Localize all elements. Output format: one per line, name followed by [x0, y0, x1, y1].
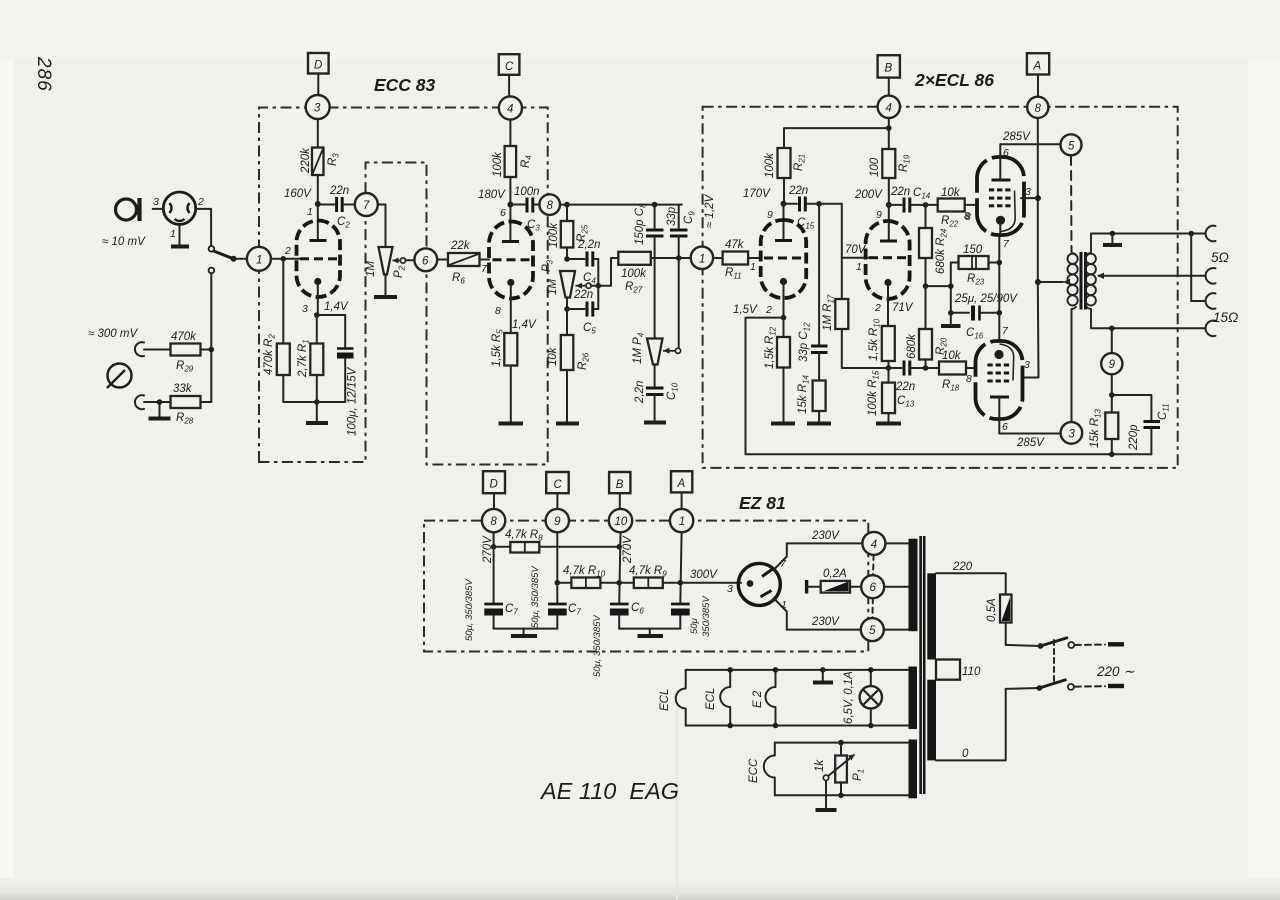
- svg-text:160V: 160V: [284, 188, 312, 200]
- 110V tap box: [936, 660, 960, 680]
- ground: [374, 295, 397, 299]
- 300V wire to EZ81: [680, 582, 741, 584]
- cathode V1b: [507, 279, 514, 286]
- wire R25 to node: [566, 248, 568, 260]
- resistor R27 100k: [618, 252, 651, 265]
- mains primary winding bar upper: [927, 573, 936, 659]
- letter box D2: [483, 471, 505, 493]
- output transformer secondary winding: [1086, 234, 1096, 329]
- wire R17 to rail: [842, 329, 889, 368]
- svg-text:22n: 22n: [788, 185, 808, 197]
- capacitor C6a 50u: [610, 604, 629, 629]
- wire terminal3 to R3: [317, 119, 319, 148]
- svg-text:B: B: [616, 479, 624, 491]
- wire terminal4b down to R19: [888, 128, 890, 149]
- 230V wire lower to terminal 5c: [787, 629, 861, 631]
- svg-text:1: 1: [750, 261, 756, 273]
- capacitor C5 22n: [564, 286, 598, 317]
- ground: [644, 421, 666, 425]
- svg-text:1: 1: [307, 206, 313, 218]
- svg-text:1: 1: [256, 254, 262, 266]
- heater ground: [820, 667, 826, 673]
- wire down to R25: [566, 205, 568, 221]
- capacitor C6b 50u: [671, 604, 690, 629]
- capacitor C9 33p: [670, 205, 688, 258]
- resistor R19 100: [882, 149, 895, 178]
- capacitor C2 22n: [318, 197, 355, 212]
- ECC heater rail upper: [775, 742, 908, 744]
- screen wire V4 to terminal 3: [999, 433, 1060, 435]
- wire R19 to anode node V2b: [888, 178, 890, 205]
- wire C15 node to grid rail V2b: [819, 204, 842, 299]
- resistor R24 680k: [925, 205, 927, 228]
- svg-text:1M: 1M: [547, 279, 559, 295]
- dashed link terminals 4-6-5: [872, 555, 875, 575]
- heater winding bar upper: [909, 667, 918, 730]
- wire C9 node down to P4 wiper: [678, 258, 680, 348]
- wire terminal7 to P2: [378, 205, 386, 248]
- resistor R10b 4,7k: [557, 578, 619, 589]
- ground: [876, 422, 901, 426]
- grids V4: [987, 365, 1009, 381]
- capacitor C7b 50u: [548, 604, 567, 629]
- capacitor C3 100n: [510, 198, 539, 213]
- svg-text:10k: 10k: [942, 350, 962, 362]
- svg-text:3: 3: [1024, 359, 1030, 371]
- anode wire V3 to node: [1021, 197, 1039, 199]
- grids V3: [989, 190, 1011, 206]
- capacitor C15 22n: [784, 197, 820, 212]
- svg-text:230V: 230V: [811, 616, 840, 628]
- letter box D: [308, 53, 329, 74]
- svg-text:10: 10: [615, 516, 628, 528]
- resistor R29 470k: [171, 344, 201, 356]
- resistor R20 680k: [925, 286, 927, 329]
- wire terminal 10 down: [619, 532, 620, 604]
- wire R26 to ground: [566, 370, 568, 422]
- anode lead V1a: [317, 204, 319, 241]
- switch mechanical link: [1053, 640, 1055, 684]
- svg-text:47k: 47k: [725, 239, 745, 251]
- svg-text:71V: 71V: [892, 302, 914, 314]
- svg-text:EZ 81: EZ 81: [739, 493, 786, 513]
- switch blade: [213, 251, 233, 259]
- anode lead V2a: [783, 204, 785, 241]
- wire R20 to rail: [925, 360, 927, 369]
- svg-text:3: 3: [314, 103, 321, 115]
- svg-text:200V: 200V: [854, 189, 883, 201]
- svg-text:6: 6: [1002, 421, 1008, 433]
- potentiometer P4 1M: [647, 339, 663, 365]
- wire terminal4 to R4: [509, 120, 511, 146]
- svg-text:4,7k R8: 4,7k R8: [505, 529, 543, 543]
- resistor R11 47k: [713, 252, 761, 265]
- cathode V3: [996, 216, 1005, 225]
- svg-text:2,7k R1: 2,7k R1: [297, 339, 311, 378]
- wire lower contact down to R29/R28 node: [210, 273, 212, 402]
- capacitor C10 2,2n: [646, 365, 664, 421]
- transformer core: [919, 536, 922, 794]
- wire 0 tap to lower switch: [1006, 687, 1039, 690]
- resistor R5 1,5k: [504, 333, 517, 366]
- cathode lead V2a: [783, 284, 785, 337]
- heater loop E2: [766, 670, 776, 726]
- primary outline 0 tap: [936, 689, 1006, 761]
- svg-text:50μ, 350/385V: 50μ, 350/385V: [464, 578, 475, 641]
- wire terminal 5 to primary top dashed: [1070, 156, 1073, 253]
- svg-text:8: 8: [490, 516, 497, 528]
- grid V1b: [493, 258, 530, 261]
- svg-text:4: 4: [507, 104, 513, 116]
- svg-text:8: 8: [1035, 103, 1042, 115]
- node grid V1a: [281, 256, 287, 262]
- svg-text:4: 4: [871, 539, 877, 551]
- wire wiper node to R27: [591, 258, 618, 286]
- svg-text:AE 110 EAG: AE 110 EAG: [539, 778, 679, 804]
- terminal 1 input: [247, 247, 271, 271]
- cathode lead V2b: [887, 285, 889, 326]
- svg-text:270V: 270V: [482, 535, 494, 564]
- HV secondary winding bar: [909, 539, 918, 632]
- terminal 8: [539, 194, 560, 215]
- svg-text:680k: 680k: [906, 333, 918, 359]
- resistor R14 15k: [813, 381, 826, 412]
- bottom wire stage1: [283, 375, 345, 402]
- svg-text:0: 0: [962, 748, 969, 760]
- svg-text:285V: 285V: [1002, 131, 1031, 143]
- svg-text:33p: 33p: [666, 206, 678, 226]
- svg-text:3: 3: [302, 303, 308, 315]
- resistor R2 470k: [277, 344, 290, 376]
- svg-text:3: 3: [1025, 186, 1031, 198]
- wire C5 node to R26: [566, 309, 568, 335]
- ground: [807, 422, 831, 426]
- wire terminal 3b to transformer primary bottom: [1071, 309, 1073, 422]
- terminal 10: [609, 509, 632, 532]
- letter box C2: [546, 472, 569, 493]
- anode lead V2b: [888, 205, 890, 241]
- anode line V3: [1001, 191, 1015, 232]
- svg-text:6: 6: [870, 582, 877, 594]
- svg-text:220 ∼: 220 ∼: [1096, 664, 1135, 679]
- transformer core: [1080, 252, 1083, 310]
- page fold crease: [676, 690, 678, 900]
- terminal 1 ECL86: [691, 247, 713, 269]
- svg-text:285V: 285V: [1016, 437, 1045, 449]
- link C box to terminal 4: [508, 75, 510, 97]
- pilot lamp 6,5V 0,1A: [860, 670, 882, 726]
- anode plate V1a: [310, 239, 327, 242]
- terminal 7: [355, 193, 378, 216]
- wire wiper to terminal 6: [406, 259, 415, 261]
- svg-text:5: 5: [869, 625, 876, 637]
- screen lead V3: [999, 144, 1001, 180]
- svg-text:15Ω: 15Ω: [1213, 310, 1238, 325]
- triode V1b ECC83: [489, 222, 533, 299]
- dash wire to mains stub lower: [1075, 685, 1105, 687]
- terminal 3b: [1061, 422, 1083, 444]
- svg-text:1: 1: [170, 228, 176, 240]
- ground stem C16: [950, 313, 952, 324]
- svg-text:470k R2: 470k R2: [263, 334, 277, 375]
- triode V1a ECC83: [297, 221, 341, 298]
- svg-text:100k: 100k: [548, 222, 560, 248]
- svg-text:A: A: [1033, 61, 1042, 73]
- cathode lead V3: [999, 224, 1001, 236]
- heater loop ECL 1: [676, 670, 686, 726]
- dashed enclosure ECC83: [259, 108, 548, 465]
- node anode V1b: [507, 202, 513, 208]
- terminal 4c: [862, 532, 885, 555]
- grid wire V1a to terminal 1: [271, 258, 300, 260]
- svg-text:1,4V: 1,4V: [324, 301, 349, 313]
- wire node to R23 left rail: [926, 285, 951, 287]
- link B2 box to terminal 10: [619, 493, 621, 509]
- capacitor C11 220p: [1144, 422, 1161, 455]
- svg-text:8: 8: [495, 305, 501, 317]
- svg-text:50μ: 50μ: [689, 617, 700, 634]
- svg-text:6: 6: [500, 207, 506, 219]
- svg-text:22n: 22n: [895, 381, 915, 393]
- link D box to terminal 3: [317, 74, 319, 96]
- pin 1 lead and ground: [179, 225, 181, 246]
- wire jack to R29: [144, 349, 171, 351]
- wire R10 to rail node: [888, 361, 890, 383]
- wire blade to terminal 1: [235, 258, 247, 260]
- input symbol a: [116, 198, 140, 221]
- speaker jack 2: [1206, 268, 1216, 284]
- grid V2b: [869, 256, 906, 259]
- wiper P2: [393, 260, 401, 262]
- rectifier tube EZ81: [738, 563, 780, 605]
- svg-text:22k: 22k: [450, 240, 471, 252]
- wire R27 to terminal 1: [651, 257, 691, 259]
- svg-text:22n: 22n: [329, 185, 349, 197]
- svg-text:2×ECL 86: 2×ECL 86: [914, 70, 994, 90]
- mains primary winding bar lower: [927, 680, 936, 761]
- wire grid node down to R2: [282, 259, 284, 344]
- heater bus lower rail: [686, 725, 908, 727]
- svg-text:100μ, 12/15V: 100μ, 12/15V: [347, 366, 359, 436]
- wire P2 bottom to ground: [385, 275, 387, 296]
- svg-text:220p: 220p: [1128, 424, 1140, 451]
- svg-text:C: C: [505, 61, 514, 73]
- svg-text:5Ω: 5Ω: [1211, 250, 1229, 265]
- svg-text:7: 7: [363, 200, 370, 212]
- heater loop ECC: [764, 743, 775, 796]
- anode line V4: [1000, 344, 1014, 381]
- hum pot P1 1k: [823, 740, 854, 798]
- heater loop ECL 2: [720, 670, 730, 726]
- svg-text:150p C8: 150p C8: [634, 203, 648, 245]
- wiper P3: [576, 285, 587, 287]
- svg-text:0,5A: 0,5A: [986, 598, 998, 622]
- svg-text:10k: 10k: [941, 187, 961, 199]
- heater winding bar lower: [909, 740, 918, 799]
- svg-text:8: 8: [966, 373, 972, 385]
- svg-text:8: 8: [547, 200, 554, 212]
- phono input symbol: [107, 364, 132, 389]
- svg-text:1M: 1M: [365, 261, 377, 277]
- wire cathode node to R1: [316, 315, 318, 344]
- svg-text:100n: 100n: [514, 186, 540, 198]
- anode lead V1b: [509, 205, 511, 242]
- cathode lead V1b: [510, 285, 512, 333]
- terminal 5: [1061, 134, 1082, 155]
- ground: [511, 634, 537, 638]
- dash wire to mains stub upper: [1075, 644, 1105, 647]
- resistor R8 4,7k: [494, 542, 620, 553]
- wire C7a to ground link: [494, 628, 558, 630]
- svg-text:4: 4: [886, 102, 892, 114]
- svg-text:22n: 22n: [890, 186, 910, 198]
- potentiometer P2 1M: [379, 247, 393, 275]
- wire R12 to ground: [783, 368, 785, 422]
- resistor R6 22k: [437, 253, 489, 266]
- ground stem stage1: [316, 402, 318, 421]
- ground: [171, 245, 189, 249]
- resistor R25 100k: [561, 221, 574, 248]
- resistor R15 100k: [882, 383, 895, 414]
- switch lower contact: [209, 268, 215, 274]
- terminal 6c: [861, 575, 884, 598]
- svg-text:2: 2: [284, 245, 291, 257]
- terminal 6: [414, 248, 437, 271]
- lower switch: [1037, 685, 1043, 691]
- ground stem: [649, 629, 651, 634]
- link C2 box to terminal 9c: [556, 493, 558, 509]
- svg-text:180V: 180V: [478, 189, 506, 201]
- wire C15 node down to C12: [818, 204, 820, 345]
- svg-text:B: B: [885, 63, 893, 75]
- svg-text:ECL: ECL: [659, 689, 671, 711]
- node anode V1a: [315, 201, 321, 207]
- primary outline 220 tap: [936, 573, 1006, 594]
- wire cathode node to C1: [317, 315, 345, 347]
- pin 1 wire EZ81: [774, 599, 787, 630]
- terminal 4b: [878, 96, 900, 118]
- potentiometer P3 1M: [560, 271, 575, 298]
- wires terminals to mains transformer: [885, 542, 908, 544]
- triode V2a ECL86: [761, 220, 807, 298]
- cathode rail pentodes: [998, 236, 1000, 341]
- link D2 box to terminal 8c: [493, 493, 495, 509]
- svg-text:2: 2: [765, 304, 772, 316]
- svg-text:33k: 33k: [173, 383, 193, 395]
- node C15 out: [816, 201, 822, 207]
- terminal 8b: [1027, 97, 1048, 118]
- svg-text:22n: 22n: [573, 289, 593, 301]
- letter box C: [499, 54, 520, 75]
- wire R15 to ground: [888, 413, 890, 422]
- resistor R3 220k: [312, 148, 324, 176]
- svg-text:220: 220: [952, 561, 973, 573]
- resistor R21 100k: [778, 148, 791, 178]
- capacitor C12 33p: [811, 346, 828, 381]
- screen wire V3 to terminal 5: [1000, 143, 1060, 145]
- svg-text:3: 3: [727, 583, 733, 595]
- svg-text:6: 6: [1003, 147, 1009, 159]
- resistor R10 1,5k: [882, 326, 895, 361]
- pentode V3 ECL86 upper: [977, 157, 1024, 235]
- cathode V2b: [884, 279, 891, 286]
- svg-text:≈ 300 mV: ≈ 300 mV: [88, 328, 138, 340]
- wire R4 to anode node V1b: [509, 177, 511, 205]
- svg-text:300V: 300V: [690, 569, 718, 581]
- wire top rail terminal4 to R21: [784, 118, 889, 148]
- svg-text:3: 3: [153, 196, 159, 208]
- microphone socket: [163, 192, 195, 224]
- svg-text:5: 5: [1068, 140, 1075, 152]
- cathode lead V1a: [317, 284, 318, 315]
- pentode V4 ECL86 lower: [976, 341, 1023, 419]
- upper switch: [1038, 643, 1044, 649]
- secondary tap arrow: [1099, 275, 1206, 277]
- svg-text:9: 9: [767, 209, 773, 221]
- ground: [556, 422, 579, 426]
- terminal 1c: [670, 509, 693, 532]
- resistor R22 10k: [926, 199, 978, 212]
- screen lead V4: [998, 397, 1000, 434]
- svg-text:25μ, 25/90V: 25μ, 25/90V: [954, 293, 1018, 305]
- svg-text:≈ 1,2V: ≈ 1,2V: [704, 194, 716, 228]
- screen bar V3: [992, 179, 1011, 182]
- svg-text:1k: 1k: [814, 759, 826, 772]
- ground: [638, 634, 664, 638]
- cathode V2a: [780, 278, 787, 285]
- wire R28 to node: [201, 401, 212, 403]
- capacitor C7a 50u: [484, 604, 503, 629]
- svg-text:286: 286: [33, 56, 54, 92]
- speaker jack 1: [1206, 226, 1216, 242]
- svg-text:ECL: ECL: [705, 688, 717, 710]
- triode V2b ECL86: [866, 221, 910, 299]
- svg-text:E 2: E 2: [752, 690, 764, 708]
- grid V1a: [300, 257, 337, 260]
- resistor R1 2,7k: [310, 344, 323, 376]
- svg-text:50μ, 350/385V: 50μ, 350/385V: [530, 565, 541, 628]
- anode plate V2a: [775, 239, 792, 242]
- ground: [941, 324, 961, 328]
- resistor R17 1M: [835, 299, 848, 329]
- svg-text:ECC: ECC: [748, 758, 760, 783]
- letter box A2: [671, 471, 692, 492]
- svg-text:6: 6: [422, 255, 429, 267]
- pin 3 stub: [153, 208, 164, 210]
- ground: [306, 421, 328, 425]
- speaker jack 4: [1206, 320, 1216, 336]
- svg-text:170V: 170V: [743, 188, 771, 200]
- wire R29 to node: [201, 349, 212, 351]
- wire pin2 to switch: [196, 209, 211, 246]
- svg-text:3: 3: [1068, 428, 1075, 440]
- primary centre tap wire: [1038, 281, 1063, 283]
- anode bus terminal 8b: [1023, 118, 1039, 378]
- svg-text:150: 150: [963, 244, 983, 256]
- ECC heater rail lower: [775, 794, 908, 796]
- link A box to terminal 8b: [1037, 75, 1039, 97]
- jack strap wire: [1191, 234, 1205, 302]
- ground: [149, 417, 171, 421]
- svg-text:1: 1: [781, 599, 787, 611]
- resistor R4 100k: [505, 146, 516, 177]
- secondary bottom wire to 15 ohm jack: [1091, 327, 1206, 329]
- ground: [499, 422, 524, 426]
- fuse 0,5A: [1000, 595, 1012, 645]
- speaker jack 3: [1206, 293, 1216, 309]
- resistor R13 15k: [1105, 413, 1118, 440]
- anode plate V2b: [880, 240, 897, 243]
